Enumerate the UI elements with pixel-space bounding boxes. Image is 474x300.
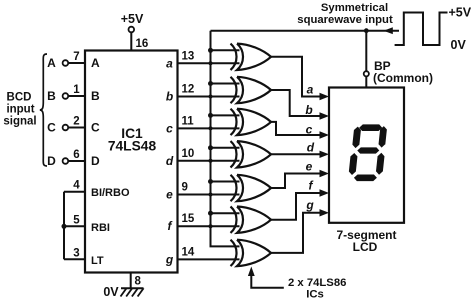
- wire segment g to LCD: [271, 213, 321, 253]
- wire XOR1 top input stub: [211, 49, 240, 51]
- wire pin 6 lead: [68, 160, 85, 162]
- svg-text:2 x 74LS86: 2 x 74LS86: [288, 277, 346, 289]
- svg-text:6: 6: [73, 149, 79, 161]
- svg-text:g: g: [165, 252, 174, 266]
- svg-text:15: 15: [182, 213, 195, 225]
- svg-text:10: 10: [182, 148, 195, 160]
- svg-text:d: d: [166, 154, 174, 168]
- svg-text:74LS48: 74LS48: [108, 139, 157, 154]
- svg-text:LT: LT: [91, 255, 104, 267]
- svg-text:12: 12: [182, 84, 195, 96]
- wire output e pin 9: [178, 194, 240, 196]
- svg-text:14: 14: [182, 246, 195, 258]
- XOR gate U2b (b): [231, 77, 272, 103]
- svg-text:ICs: ICs: [306, 289, 324, 300]
- svg-text:B: B: [47, 89, 56, 103]
- svg-text:5: 5: [73, 214, 80, 226]
- XOR gate U2e (e): [231, 175, 272, 201]
- svg-text:+5V: +5V: [449, 6, 472, 20]
- svg-text:C: C: [91, 121, 100, 135]
- 7-segment LCD body: [329, 88, 404, 223]
- arrowhead f: [320, 189, 330, 196]
- svg-text:LCD: LCD: [353, 240, 378, 254]
- svg-text:11: 11: [182, 115, 195, 127]
- junction bus to XOR1: [208, 48, 213, 53]
- junction bus to XOR4: [208, 145, 213, 150]
- junction bus to XOR3: [208, 113, 213, 118]
- crossover blob row f: [209, 224, 213, 228]
- crossover blob row e: [209, 193, 213, 197]
- junction bus to XOR5: [208, 179, 213, 184]
- svg-text:c: c: [166, 121, 173, 135]
- svg-text:7: 7: [73, 51, 79, 63]
- svg-text:a: a: [307, 82, 314, 96]
- XOR gate U2g (g): [231, 240, 272, 266]
- wire XOR5 top input stub: [211, 181, 240, 183]
- crossover blob row d: [209, 159, 213, 163]
- svg-text:g: g: [305, 198, 314, 212]
- junction bus to XOR6: [208, 211, 213, 216]
- wire pin 5 lead: [64, 225, 85, 227]
- arrowhead c: [320, 131, 330, 138]
- crossover blob row c: [209, 126, 213, 130]
- svg-text:b: b: [166, 90, 173, 104]
- svg-text:BI/RBO: BI/RBO: [91, 187, 130, 199]
- svg-text:e: e: [166, 188, 173, 202]
- wire BP to LCD: [365, 76, 367, 87]
- arrowhead d: [320, 151, 330, 158]
- svg-text:B: B: [91, 89, 100, 103]
- svg-text:d: d: [307, 140, 315, 154]
- svg-text:8: 8: [135, 276, 142, 288]
- wire XOR4 top input stub: [211, 147, 240, 149]
- svg-text:e: e: [306, 160, 313, 174]
- svg-text:input: input: [6, 104, 34, 116]
- wire pin 2 lead: [68, 127, 85, 129]
- wire squarewave input: [211, 30, 400, 32]
- svg-text:(Common): (Common): [373, 71, 433, 85]
- svg-text:4: 4: [73, 180, 80, 192]
- wire pin 4 lead: [64, 191, 85, 193]
- arrowhead g: [320, 209, 330, 216]
- junction at pin 5 tie: [62, 224, 67, 229]
- svg-text:BCD: BCD: [7, 92, 32, 104]
- svg-text:signal: signal: [3, 116, 36, 128]
- ground symbol: [121, 287, 144, 289]
- wire output d pin 10: [178, 160, 240, 162]
- wire segment a to LCD: [271, 57, 321, 97]
- wire output c pin 11: [178, 127, 240, 129]
- svg-text:0V: 0V: [451, 38, 467, 52]
- arrowhead squarewave input: [384, 27, 393, 34]
- wire segment e to LCD: [271, 174, 321, 189]
- svg-text:A: A: [47, 56, 56, 70]
- crossover blob row b: [209, 95, 213, 99]
- callout arrow to XOR ICs: [251, 274, 283, 288]
- brace grouping BCD inputs: [40, 54, 47, 166]
- svg-text:b: b: [305, 103, 312, 117]
- wire BP: [365, 31, 367, 72]
- svg-text:D: D: [47, 154, 56, 168]
- junction bus to XOR2: [208, 81, 213, 86]
- junction squarewave to BP: [364, 28, 369, 33]
- XOR gate U2f (f): [231, 207, 272, 233]
- IC U1 74LS48 body: [85, 51, 178, 273]
- svg-text:c: c: [306, 122, 313, 136]
- wire pin 1 lead: [68, 95, 85, 97]
- wire XOR6 top input stub: [211, 212, 240, 214]
- wire pin 8: [130, 273, 132, 289]
- wire squarewave bus: [210, 31, 212, 247]
- svg-text:A: A: [91, 56, 100, 70]
- wire segment d to LCD: [271, 153, 321, 155]
- wire pin 7 lead: [68, 62, 85, 64]
- svg-text:+5V: +5V: [121, 12, 144, 26]
- svg-text:C: C: [47, 121, 56, 135]
- svg-text:9: 9: [182, 182, 188, 194]
- wire segment f to LCD: [271, 193, 321, 220]
- crossover blob row a: [209, 61, 213, 65]
- wire tying pins 4,5,3: [63, 192, 65, 260]
- svg-text:13: 13: [182, 50, 195, 62]
- svg-text:a: a: [166, 56, 173, 70]
- XOR gate U2a (a): [231, 44, 272, 70]
- wire pin 16: [130, 32, 132, 50]
- svg-text:16: 16: [136, 38, 149, 50]
- svg-text:0V: 0V: [103, 285, 119, 299]
- XOR gate U2d (d): [231, 141, 272, 167]
- svg-text:Symmetrical: Symmetrical: [321, 2, 388, 14]
- svg-text:D: D: [91, 154, 100, 168]
- svg-text:RBI: RBI: [91, 222, 110, 234]
- wire output b pin 12: [178, 96, 240, 98]
- squarewave waveform symbol: [395, 13, 448, 46]
- svg-text:2: 2: [73, 116, 79, 128]
- wire segment b to LCD: [271, 90, 321, 116]
- wire XOR3 top input stub: [211, 114, 240, 116]
- XOR gate U2c (c): [231, 109, 272, 135]
- wire output f pin 15: [178, 225, 240, 227]
- svg-text:1: 1: [73, 84, 80, 96]
- arrowhead a: [320, 93, 330, 100]
- wire output a pin 13: [178, 62, 240, 64]
- arrowhead b: [320, 112, 330, 119]
- svg-text:squarewave input: squarewave input: [297, 14, 393, 26]
- wire segment c to LCD: [271, 122, 321, 135]
- LCD digit 8: [348, 124, 388, 181]
- svg-text:3: 3: [73, 247, 79, 259]
- BP terminal: [364, 71, 369, 76]
- arrowhead e: [320, 170, 330, 177]
- wire output g pin 14: [178, 258, 240, 260]
- wire XOR2 top input stub: [211, 83, 240, 85]
- wire pin 3 lead: [64, 258, 85, 260]
